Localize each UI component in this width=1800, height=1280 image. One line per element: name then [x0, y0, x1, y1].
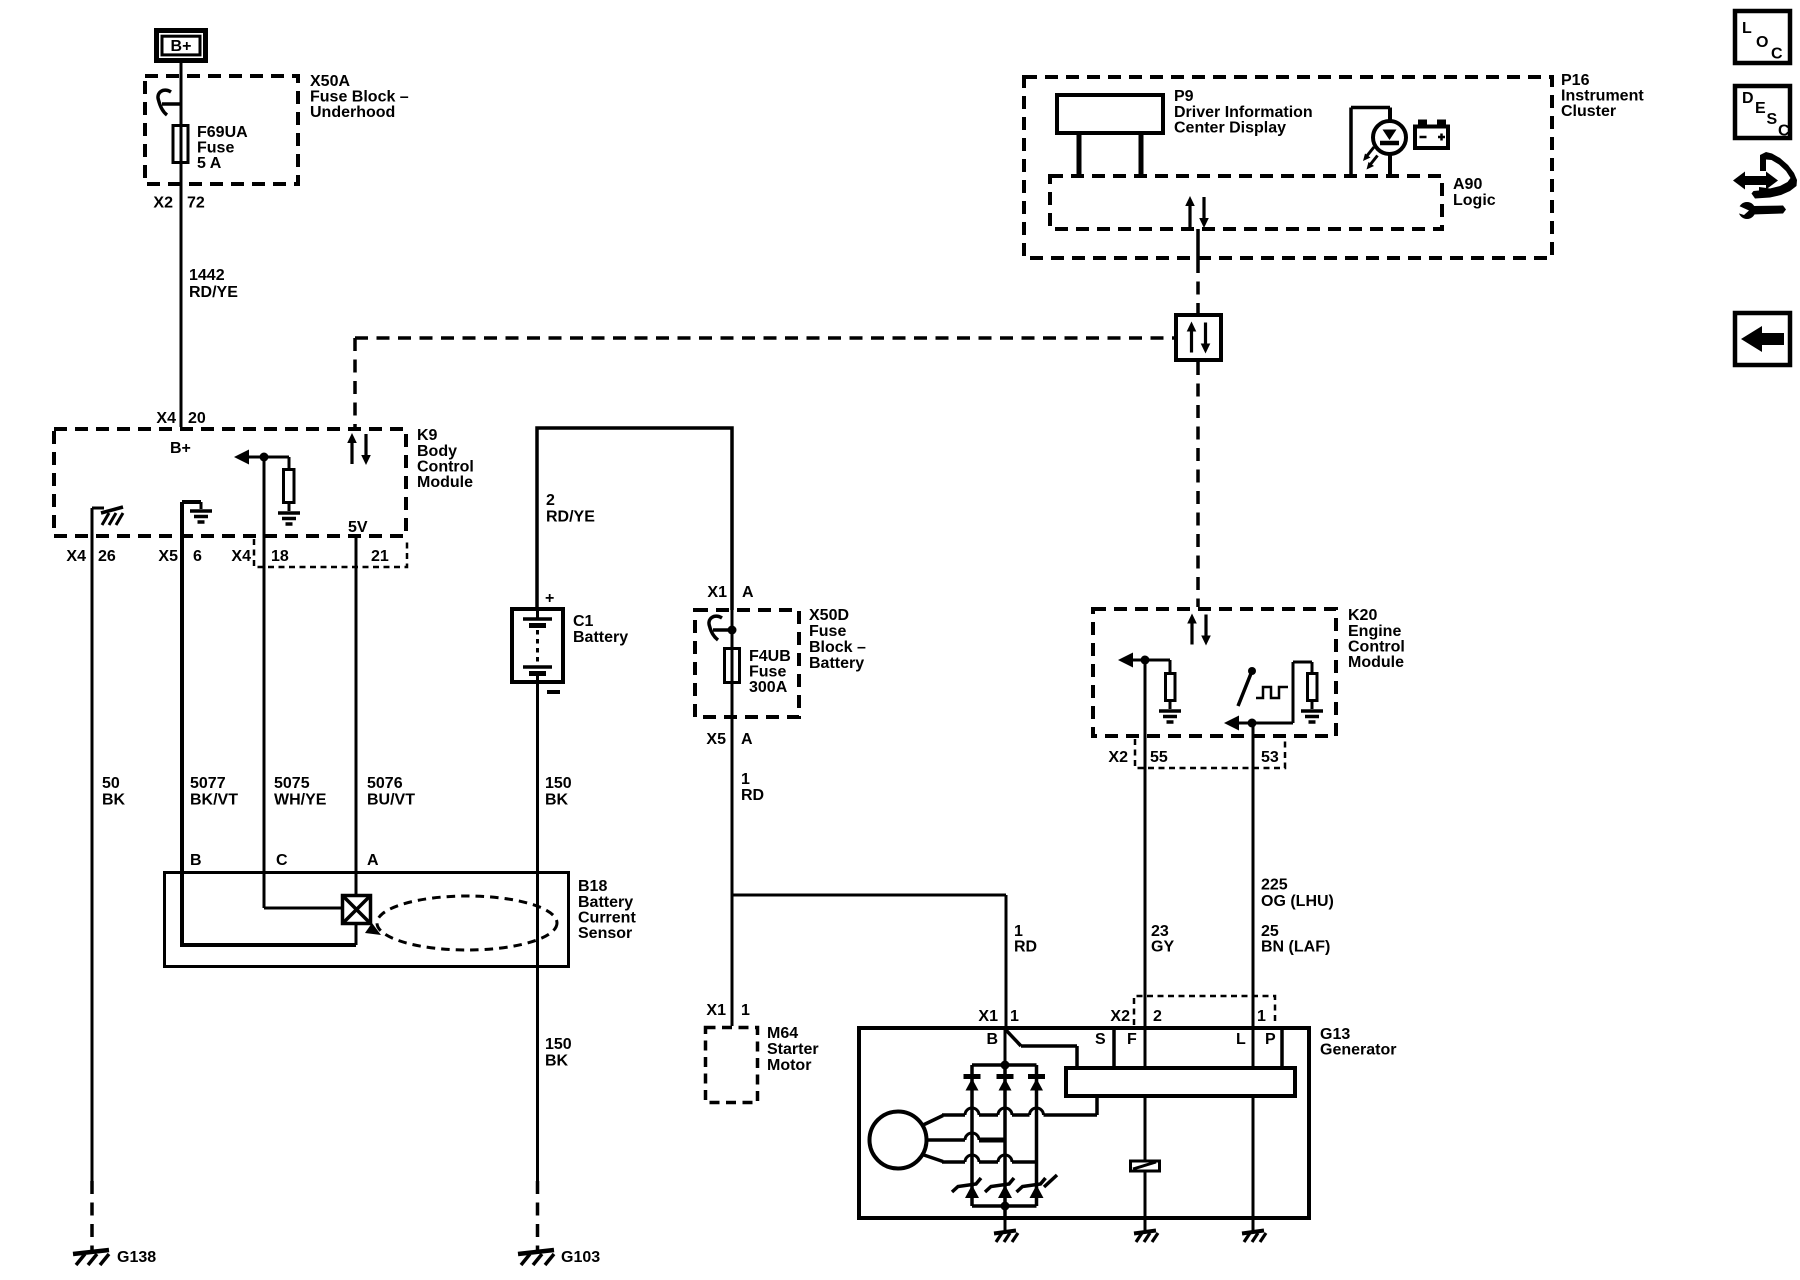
svg-text:Driver Information: Driver Information	[1174, 104, 1313, 121]
svg-text:P9: P9	[1174, 88, 1194, 105]
svg-text:GY: GY	[1151, 939, 1174, 956]
svg-text:RD: RD	[1014, 939, 1037, 956]
svg-text:F: F	[1127, 1031, 1137, 1048]
svg-text:23: 23	[1151, 923, 1169, 940]
svg-text:OG (LHU): OG (LHU)	[1261, 893, 1334, 910]
svg-text:26: 26	[98, 548, 116, 565]
svg-text:C: C	[1778, 123, 1790, 140]
svg-text:Instrument: Instrument	[1561, 88, 1644, 105]
svg-text:Underhood: Underhood	[310, 104, 395, 121]
svg-text:BU/VT: BU/VT	[367, 792, 415, 809]
svg-text:Block –: Block –	[809, 639, 866, 656]
svg-text:X4: X4	[231, 548, 251, 565]
svg-text:1442: 1442	[189, 267, 225, 284]
svg-text:1: 1	[1014, 923, 1023, 940]
svg-text:BN (LAF): BN (LAF)	[1261, 939, 1330, 956]
svg-text:BK: BK	[102, 792, 126, 809]
svg-text:B: B	[986, 1031, 998, 1048]
svg-text:50: 50	[102, 775, 120, 792]
svg-text:RD: RD	[741, 787, 764, 804]
svg-text:B+: B+	[170, 440, 191, 457]
svg-text:F4UB: F4UB	[749, 648, 791, 665]
svg-text:S: S	[1767, 111, 1778, 128]
svg-text:Battery: Battery	[573, 629, 628, 646]
svg-text:72: 72	[187, 195, 205, 212]
svg-text:Battery: Battery	[578, 894, 633, 911]
svg-text:1: 1	[1257, 1008, 1266, 1025]
svg-text:BK/VT: BK/VT	[190, 792, 238, 809]
svg-text:K20: K20	[1348, 607, 1377, 624]
svg-text:Engine: Engine	[1348, 623, 1401, 640]
svg-text:150: 150	[545, 775, 572, 792]
svg-text:P16: P16	[1561, 72, 1590, 89]
svg-text:Module: Module	[1348, 654, 1404, 671]
svg-text:Fuse: Fuse	[197, 140, 234, 157]
svg-text:L: L	[1742, 20, 1752, 37]
svg-text:225: 225	[1261, 877, 1288, 894]
svg-text:X1: X1	[706, 1002, 726, 1019]
svg-text:300A: 300A	[749, 679, 788, 696]
svg-text:Sensor: Sensor	[578, 925, 632, 942]
svg-text:X5: X5	[158, 548, 178, 565]
svg-text:G103: G103	[561, 1249, 600, 1266]
svg-text:C: C	[276, 852, 288, 869]
svg-text:2: 2	[1153, 1008, 1162, 1025]
svg-text:Body: Body	[417, 443, 457, 460]
svg-text:Starter: Starter	[767, 1041, 819, 1058]
svg-text:BK: BK	[545, 792, 569, 809]
svg-text:G13: G13	[1320, 1026, 1350, 1043]
svg-text:X2: X2	[153, 195, 173, 212]
svg-text:20: 20	[188, 410, 206, 427]
svg-text:5077: 5077	[190, 775, 226, 792]
svg-text:X50A: X50A	[310, 73, 350, 90]
svg-text:K9: K9	[417, 427, 438, 444]
svg-text:Control: Control	[1348, 639, 1405, 656]
svg-text:+: +	[545, 590, 554, 607]
svg-text:RD/YE: RD/YE	[546, 509, 595, 526]
svg-text:B18: B18	[578, 878, 607, 895]
svg-text:RD/YE: RD/YE	[189, 284, 238, 301]
svg-text:150: 150	[545, 1036, 572, 1053]
svg-text:5V: 5V	[348, 519, 368, 536]
svg-text:A: A	[367, 852, 379, 869]
svg-text:A: A	[741, 731, 753, 748]
svg-text:P: P	[1265, 1031, 1276, 1048]
svg-text:Motor: Motor	[767, 1057, 811, 1074]
svg-text:Module: Module	[417, 474, 473, 491]
svg-text:18: 18	[271, 548, 289, 565]
svg-text:O: O	[1756, 34, 1768, 51]
svg-text:S: S	[1095, 1031, 1106, 1048]
svg-text:55: 55	[1150, 749, 1168, 766]
svg-text:Fuse: Fuse	[749, 664, 786, 681]
svg-text:Fuse Block –: Fuse Block –	[310, 89, 409, 106]
svg-text:M64: M64	[767, 1025, 798, 1042]
svg-text:1: 1	[741, 1002, 750, 1019]
svg-text:A90: A90	[1453, 176, 1482, 193]
svg-text:A: A	[742, 584, 754, 601]
svg-text:5075: 5075	[274, 775, 310, 792]
svg-text:BK: BK	[545, 1053, 569, 1070]
svg-text:B+: B+	[171, 38, 192, 55]
svg-text:25: 25	[1261, 923, 1279, 940]
svg-text:L: L	[1236, 1031, 1246, 1048]
svg-text:2: 2	[546, 492, 555, 509]
svg-text:C1: C1	[573, 613, 594, 630]
svg-text:C: C	[1771, 46, 1783, 63]
svg-text:Generator: Generator	[1320, 1042, 1396, 1059]
svg-text:Logic: Logic	[1453, 192, 1496, 209]
svg-text:X1: X1	[707, 584, 727, 601]
svg-text:X5: X5	[706, 731, 726, 748]
svg-text:1: 1	[741, 771, 750, 788]
svg-text:53: 53	[1261, 749, 1279, 766]
svg-text:E: E	[1755, 100, 1766, 117]
svg-text:WH/YE: WH/YE	[274, 792, 327, 809]
svg-text:21: 21	[371, 548, 389, 565]
svg-text:Center Display: Center Display	[1174, 120, 1286, 137]
svg-text:X50D: X50D	[809, 607, 849, 624]
svg-text:6: 6	[193, 548, 202, 565]
svg-text:Current: Current	[578, 910, 636, 927]
svg-text:Fuse: Fuse	[809, 623, 846, 640]
svg-text:F69UA: F69UA	[197, 124, 248, 141]
svg-text:Cluster: Cluster	[1561, 103, 1616, 120]
svg-text:X2: X2	[1110, 1008, 1130, 1025]
svg-text:B: B	[190, 852, 202, 869]
svg-text:5 A: 5 A	[197, 155, 222, 172]
svg-text:Control: Control	[417, 459, 474, 476]
svg-text:Battery: Battery	[809, 655, 864, 672]
svg-text:G138: G138	[117, 1249, 156, 1266]
svg-text:X1: X1	[978, 1008, 998, 1025]
svg-text:X2: X2	[1108, 749, 1128, 766]
svg-text:1: 1	[1010, 1008, 1019, 1025]
svg-text:X4: X4	[156, 410, 176, 427]
svg-text:5076: 5076	[367, 775, 403, 792]
svg-text:D: D	[1742, 90, 1754, 107]
svg-text:X4: X4	[66, 548, 86, 565]
